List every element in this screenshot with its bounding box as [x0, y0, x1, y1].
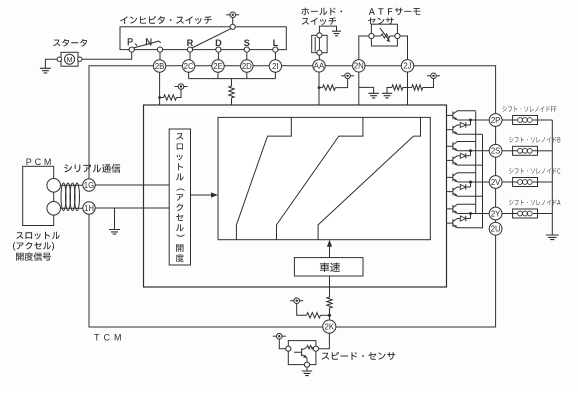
wire driver output to 2S: [457, 150, 489, 152]
resistor (range input pull-down): [229, 86, 234, 98]
terminal N: [157, 47, 162, 52]
svg-text:2S: 2S: [491, 147, 501, 156]
power B+ (2K bias): [290, 300, 303, 302]
wire driver output to 2P: [457, 119, 489, 121]
twisted pair wires PCM to 1G/1H: [61, 185, 83, 208]
transistor Q2Vb: [447, 187, 483, 196]
wire hold switch to ground: [319, 26, 336, 33]
wire vehicle speed to 2K: [329, 276, 331, 297]
ground (hold switch): [332, 31, 341, 36]
wire D to 2E: [217, 52, 219, 60]
wire 2B into TCM: [159, 72, 161, 105]
wire solenoid A to return bus: [538, 213, 553, 215]
svg-text:2B: 2B: [155, 62, 165, 71]
node 2E: [212, 60, 224, 72]
transistor Q2Yb: [447, 219, 483, 228]
wire ATF sensor to 2N: [359, 36, 369, 60]
ATF thermo sensor: [369, 8, 421, 15]
node: inhibitor common pivot: [230, 24, 235, 29]
svg-text:2K: 2K: [325, 322, 335, 331]
node 2V: [489, 176, 502, 189]
svg-text:1H: 1H: [84, 204, 94, 213]
svg-text:2C: 2C: [184, 62, 194, 71]
shift solenoid C: [509, 168, 560, 174]
resistor (AA pull-up): [318, 86, 321, 89]
svg-text:TCM: TCM: [94, 333, 126, 343]
wire S to 2D: [246, 52, 248, 60]
svg-text:2P: 2P: [491, 116, 501, 125]
svg-text:2E: 2E: [213, 62, 223, 71]
transistor Q2Ya (driver): [447, 204, 476, 213]
terminal S: [244, 47, 249, 52]
wire hold switch to AA: [318, 55, 320, 59]
node 2D: [241, 60, 253, 72]
terminal P: [129, 47, 134, 52]
shift curve 3-4: [318, 117, 420, 239]
terminal D: [216, 47, 221, 52]
ground (2N): [368, 93, 379, 98]
throttle opening input box: [169, 129, 190, 265]
svg-text:2J: 2J: [403, 62, 411, 71]
arrow throttle to shift map: [191, 194, 213, 196]
ground (2J): [382, 93, 392, 98]
power B+ feed (inhibitor common): [232, 18, 234, 25]
resistor (2B pull-up): [160, 97, 164, 99]
label throttle(accel) opening signal: [16, 232, 60, 240]
node AA: [313, 60, 325, 72]
TCM module box: [144, 105, 447, 287]
wire R to 2C: [189, 52, 191, 60]
starter motor M: [53, 39, 87, 47]
thermistor arrow: [380, 28, 389, 40]
node 2C: [182, 60, 194, 72]
svg-text:R: R: [187, 38, 194, 48]
svg-text:2V: 2V: [491, 178, 501, 187]
node 2U: [489, 222, 502, 235]
diode D2P (flyback): [460, 123, 465, 128]
ground (speed sensor): [306, 367, 308, 371]
node 2B: [153, 60, 165, 72]
svg-text:M: M: [67, 55, 73, 64]
wire solenoid C to return bus: [538, 181, 553, 183]
transistor Q2Sb: [447, 156, 483, 165]
power B+ (2J pull-up): [427, 75, 440, 77]
wire ATF sensor to 2J: [400, 36, 408, 60]
node 2Y: [489, 207, 502, 220]
terminal R: [187, 47, 192, 52]
terminal L: [273, 47, 278, 52]
label serial communication: [64, 164, 120, 173]
node 2J: [401, 60, 413, 72]
shift solenoid B: [509, 137, 560, 143]
svg-text:PCM: PCM: [26, 157, 54, 167]
node 2I: [269, 60, 281, 72]
node 1G: [83, 179, 95, 191]
diode D2V (flyback): [460, 185, 465, 190]
wire 1G to TCM throttle input: [95, 184, 169, 186]
wire solenoid B to return bus: [538, 150, 553, 152]
svg-text:2N: 2N: [354, 62, 364, 71]
svg-text:S: S: [244, 38, 250, 48]
wire driver output to 2V: [457, 181, 489, 183]
svg-text:2I: 2I: [272, 62, 279, 71]
node 1H: [83, 202, 95, 214]
svg-text:AA: AA: [314, 62, 325, 71]
vehicle speed box: [294, 258, 363, 276]
ground (1H line): [114, 208, 116, 230]
wire speed sensor to 2K: [319, 333, 330, 348]
solenoid return bus: [551, 120, 553, 235]
switch blade P-N: [134, 41, 161, 48]
wire driver output to 2Y: [457, 213, 489, 215]
power B+ (AA pull-up): [341, 75, 354, 77]
transistor Q2Va (driver): [447, 173, 476, 182]
shift map box: [218, 117, 430, 239]
wire solenoid FF to return bus: [538, 119, 553, 121]
power B+ (speed sensor): [273, 335, 286, 337]
shift curve 1-2: [236, 117, 291, 239]
speed sensor transistor: [294, 347, 307, 362]
transistor Q2Pa (driver): [447, 111, 476, 120]
collector bus (flyback): [475, 111, 477, 213]
transistor Q2Sa (driver): [447, 142, 476, 151]
node 2S: [489, 144, 502, 157]
svg-text:L: L: [273, 38, 279, 48]
emitter bus: [482, 135, 484, 229]
wire main harness loop (top bus, right pin strip, bottom wire, left pin strip): [89, 66, 496, 327]
wire 2N to ground branch: [359, 87, 374, 93]
wire 2N into TCM: [358, 72, 360, 105]
ground (starter): [40, 68, 51, 73]
svg-text:2Y: 2Y: [491, 209, 501, 218]
node 2N: [353, 60, 365, 72]
label P,N: [128, 38, 152, 46]
transistor Q2Pb: [447, 125, 483, 134]
power B+ (2B pull-up): [175, 86, 188, 88]
label speed sensor: [322, 352, 396, 360]
resistor (2J to ground): [387, 88, 392, 94]
wire starter left lead: [45, 59, 57, 68]
resistor (2K bias): [307, 313, 321, 318]
node 2P: [489, 114, 502, 127]
svg-text:2U: 2U: [491, 225, 501, 234]
svg-text:D: D: [215, 38, 222, 48]
switch blade to R: [192, 28, 231, 48]
wire 1H to TCM throttle input: [95, 207, 169, 209]
wire sub-bus 2C/2E/2D/2I: [189, 72, 276, 86]
svg-text:1G: 1G: [84, 181, 94, 190]
shift curve 2-3: [277, 117, 363, 239]
wire L to 2I: [274, 52, 276, 60]
shift solenoid A: [509, 200, 560, 206]
svg-text:2D: 2D: [242, 62, 252, 71]
diode D2S (flyback): [460, 153, 465, 158]
resistor (2K line): [327, 297, 332, 308]
node 2K: [323, 320, 336, 333]
hold switch: [301, 8, 342, 16]
inhibitor switch box: [120, 27, 286, 50]
resistor (2J pull-up): [408, 87, 412, 89]
wire 2J into TCM: [407, 72, 409, 105]
wire starter to inhibitor P terminal: [82, 52, 132, 59]
wire N to 2B: [159, 52, 161, 60]
ground (solenoid return): [546, 235, 559, 240]
wire AA into TCM: [318, 72, 320, 105]
speed sensor: [288, 341, 316, 365]
arrow vehicle speed to map: [329, 245, 331, 258]
shift solenoid FF: [503, 106, 557, 112]
diode D2Y (flyback): [460, 216, 465, 221]
